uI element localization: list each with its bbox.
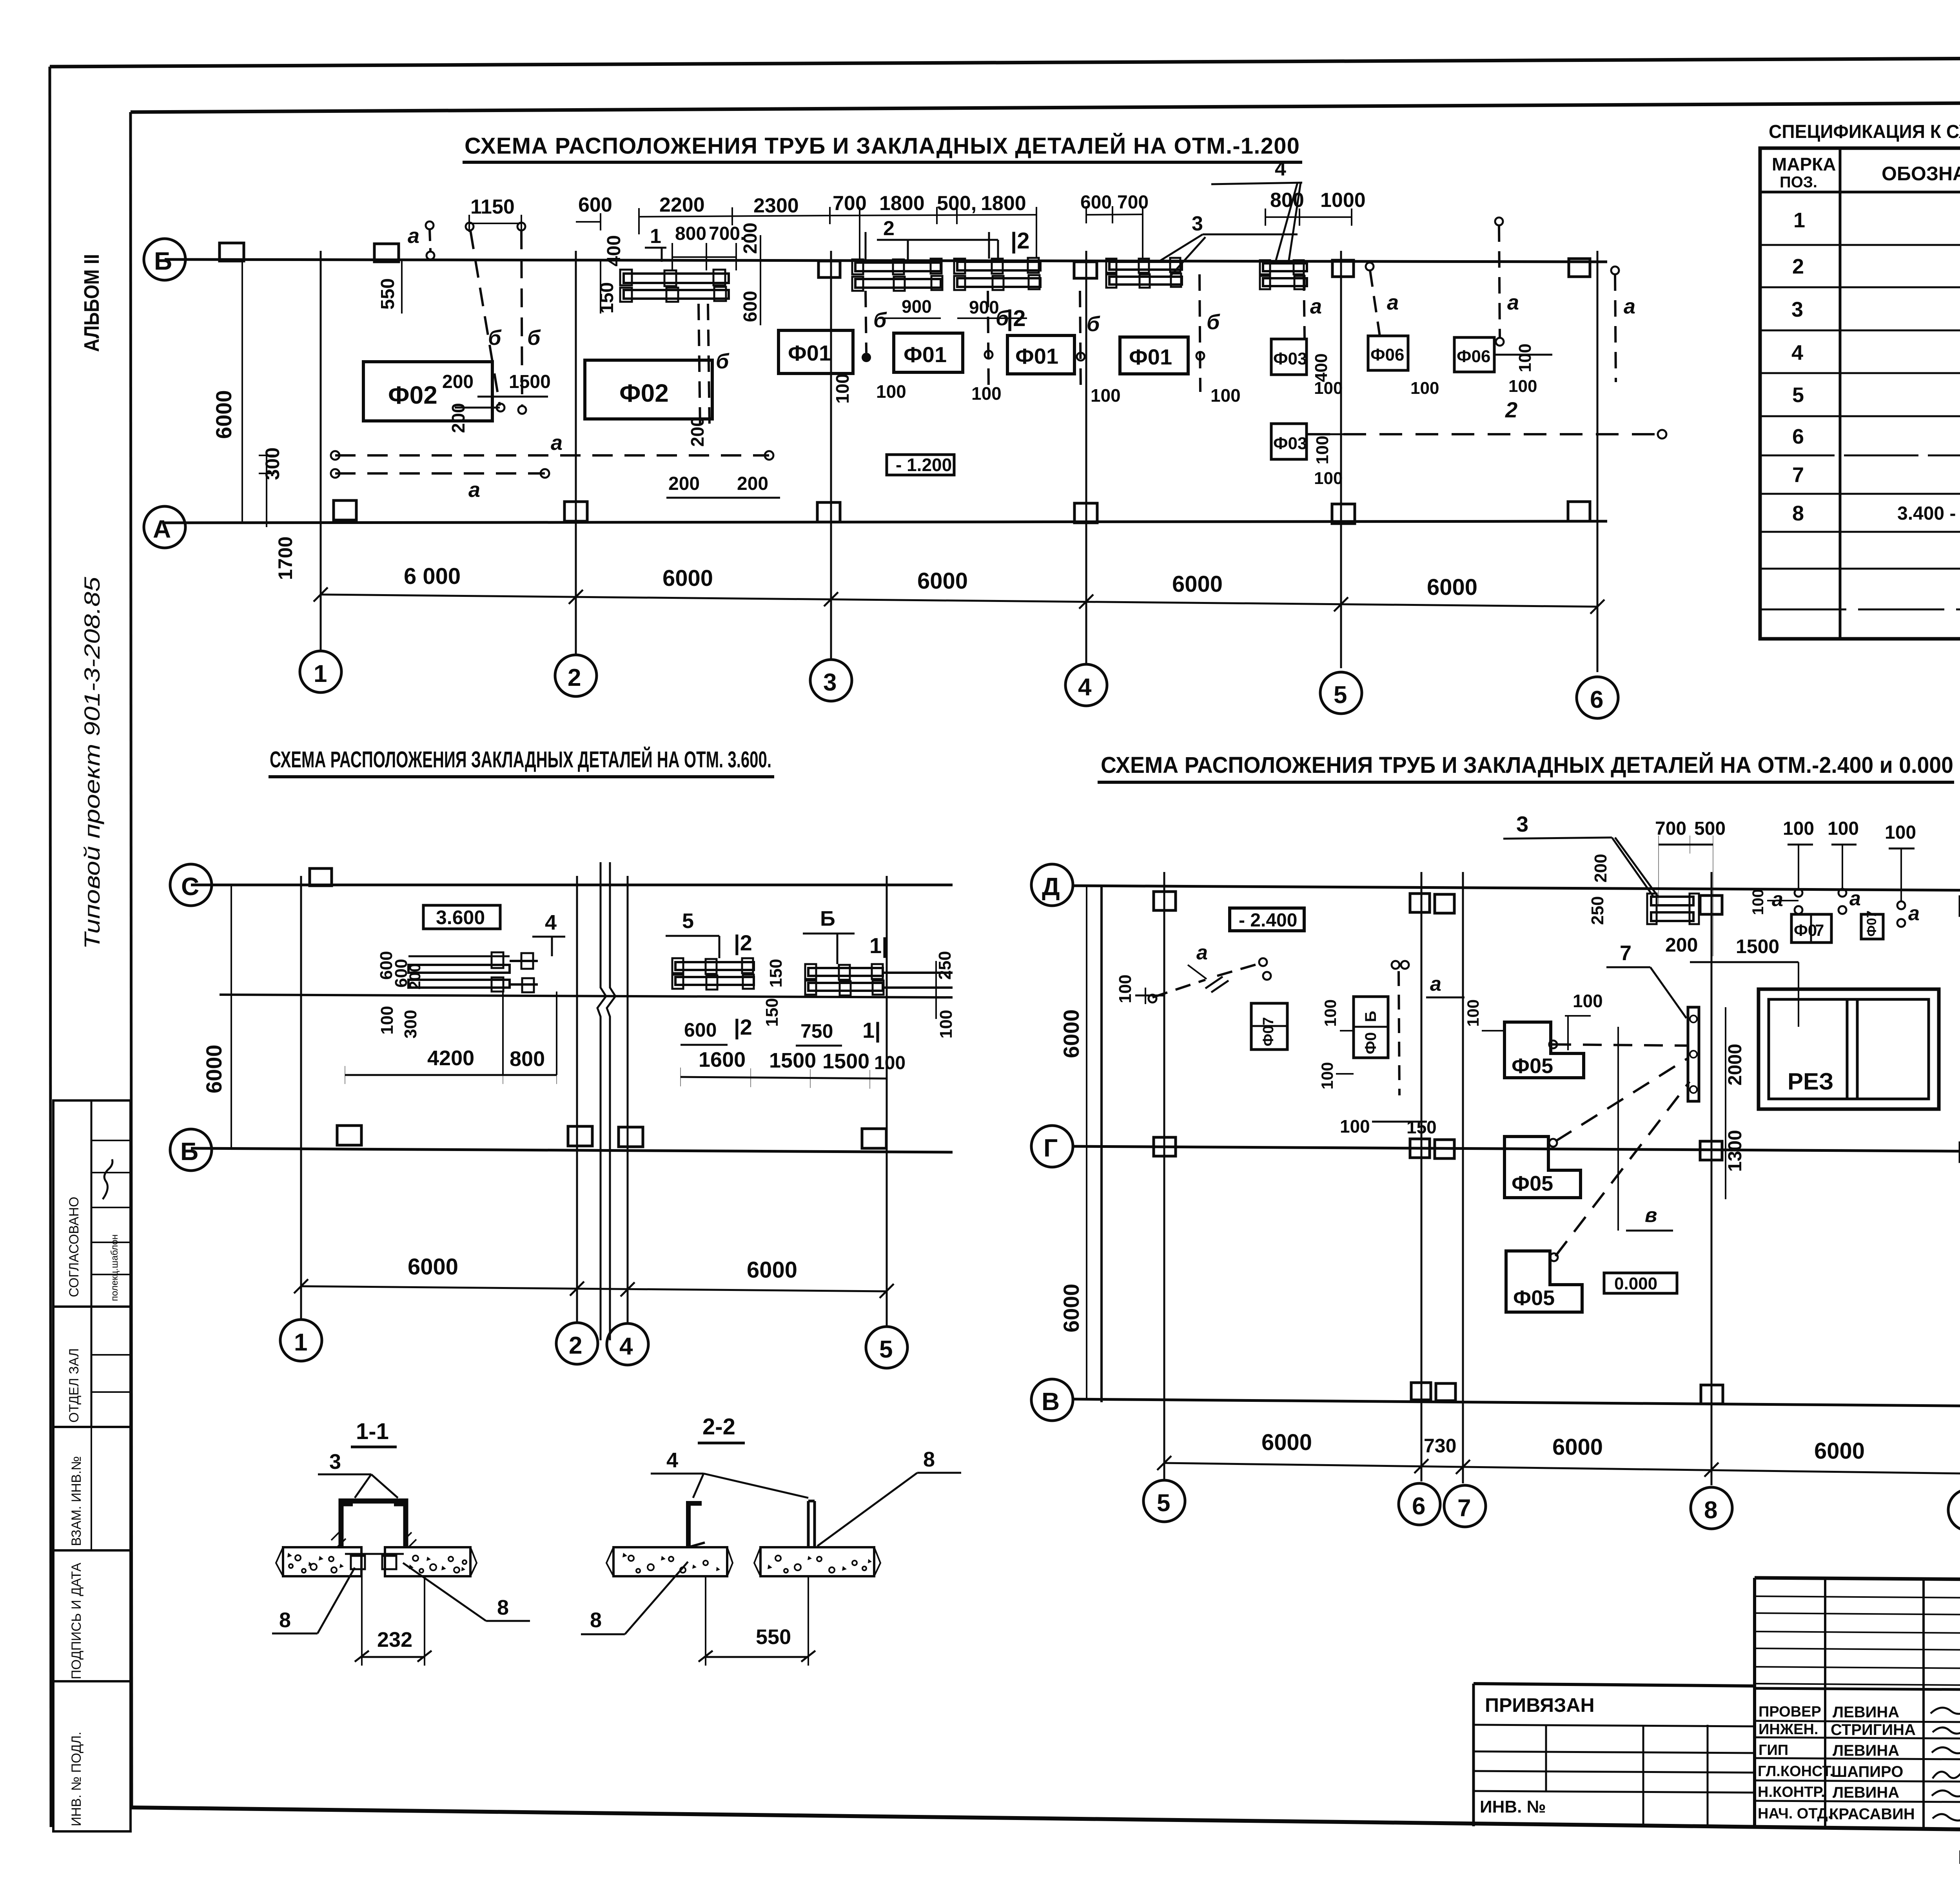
svg-text:Ф03: Ф03 [1273, 434, 1307, 453]
section 2-2 angle on left slab [688, 1503, 702, 1547]
svg-text:4: 4 [545, 911, 557, 934]
svg-text:150: 150 [766, 959, 786, 988]
titleblock names [1829, 1704, 1916, 1823]
svg-text:6: 6 [1412, 1493, 1425, 1520]
svg-text:700: 700 [1655, 818, 1686, 839]
plan3 Ф05 lower [1506, 1251, 1582, 1312]
equipment box Ф06 no.1 [1368, 336, 1408, 370]
vertical dim 6000 left [241, 259, 243, 523]
svg-text:7: 7 [1620, 941, 1632, 965]
svg-text:ИНЖЕН.: ИНЖЕН. [1759, 1721, 1818, 1738]
plan2 vertical dim 6000 [230, 885, 232, 1150]
plan3 grid line 8 [1711, 872, 1713, 1485]
svg-text:ВЗАМ. ИНВ.№: ВЗАМ. ИНВ.№ [69, 1456, 84, 1546]
svg-text:ПОЗ.: ПОЗ. [1780, 174, 1817, 191]
svg-text:ПРОВЕР: ПРОВЕР [1759, 1704, 1821, 1720]
equipment box Ф03 lower [1271, 424, 1307, 459]
svg-text:ЛЕВИНА: ЛЕВИНА [1833, 1704, 1899, 1721]
svg-text:ЛЕВИНА: ЛЕВИНА [1833, 1784, 1899, 1801]
plan3 а dashed segments left [1152, 980, 1205, 997]
svg-text:3: 3 [1791, 298, 1803, 321]
svg-text:200: 200 [1665, 934, 1698, 956]
svg-text:100: 100 [1783, 818, 1814, 839]
axis line Б [165, 259, 1607, 262]
svg-text:КОПИРОВАЛ: ХЮППЕНЕН: КОПИРОВАЛ: ХЮППЕНЕН [1958, 1846, 1960, 1868]
plan3 РЕЗ tank outer [1759, 989, 1939, 1109]
svg-text:8: 8 [923, 1448, 935, 1471]
outer border top [50, 56, 1960, 67]
svg-text:Ф06: Ф06 [1370, 345, 1405, 364]
svg-text:300: 300 [401, 1010, 420, 1039]
svg-text:100: 100 [936, 1010, 956, 1039]
column squares axis А [334, 500, 1590, 524]
svg-text:а: а [1387, 291, 1399, 314]
svg-text:а: а [1849, 887, 1861, 910]
channel cluster C1 at grids 2-3 [620, 270, 729, 302]
horizontal pipe a dashed row2 [335, 472, 545, 475]
titleblock row line above ПРОВЕР [1474, 1684, 1755, 1686]
section 1-1 slab left [283, 1547, 361, 1576]
plan2 grid circle 1 [280, 1320, 322, 1361]
svg-text:600: 600 [684, 1019, 717, 1041]
svg-text:1500: 1500 [509, 372, 551, 392]
svg-text:3.400 - 6/76: 3.400 - 6/76 [1897, 503, 1960, 524]
plan3 grid line 5 [1163, 872, 1165, 1479]
plan2 column squares Б axis [337, 1126, 886, 1148]
svg-text:150: 150 [597, 282, 617, 314]
привязан box columns [1545, 1725, 1547, 1791]
svg-text:5: 5 [1157, 1490, 1170, 1517]
svg-text:4200: 4200 [427, 1046, 474, 1070]
pipe б dashed 2 [521, 230, 522, 406]
svg-text:1: 1 [1793, 208, 1805, 232]
column squares axis Б [220, 243, 1590, 278]
grid line 1 [320, 251, 322, 651]
svg-text:а: а [1624, 295, 1635, 318]
svg-text:6000: 6000 [211, 390, 236, 439]
svg-text:3: 3 [823, 669, 837, 696]
svg-text:400: 400 [1312, 353, 1331, 382]
plan3 grid circle 6 [1399, 1483, 1440, 1525]
level mark -2.400 [1230, 908, 1304, 931]
svg-text:100: 100 [1091, 385, 1121, 406]
svg-text:ИНВ. №: ИНВ. № [1480, 1797, 1546, 1816]
svg-text:ПРИВЯЗАН: ПРИВЯЗАН [1485, 1694, 1595, 1716]
titleblock signature scribbles [1931, 1707, 1960, 1820]
svg-text:4: 4 [1791, 341, 1803, 364]
svg-text:100: 100 [377, 1006, 397, 1035]
svg-text:5: 5 [1792, 383, 1804, 407]
svg-text:1500: 1500 [769, 1049, 816, 1072]
svg-text:100: 100 [832, 373, 853, 404]
axis circle Б plan2 [170, 1129, 212, 1171]
svg-text:Б: Б [154, 247, 172, 275]
svg-text:АЛЬБОМ II: АЛЬБОМ II [80, 254, 103, 352]
svg-text:а: а [1310, 295, 1322, 318]
svg-text:2: 2 [569, 1332, 582, 1359]
pipe б dashed at Ф01-2 [988, 291, 989, 392]
svg-text:3: 3 [329, 1450, 341, 1474]
svg-text:500: 500 [1694, 818, 1726, 839]
plan2 grid circle 2 [556, 1323, 598, 1364]
svg-text:а: а [1196, 941, 1208, 964]
section 2-2 concrete speckle [622, 1553, 872, 1573]
section 2-2 plate on right slab [808, 1501, 815, 1547]
plan3 dashed diagonal to Ф05 lower [1555, 1082, 1690, 1256]
axis circle А [144, 506, 185, 548]
svg-text:- 2.400: - 2.400 [1239, 910, 1297, 931]
plan3 Ф07 box with 7 [1791, 914, 1831, 943]
svg-text:250: 250 [1588, 896, 1607, 925]
svg-text:6000: 6000 [917, 568, 968, 594]
section 1-1 concrete speckle left [287, 1553, 466, 1573]
titleblock verticals [1824, 1579, 1826, 1826]
pipe б dashed at Ф01-3 [1200, 274, 1200, 392]
svg-text:а: а [1430, 973, 1441, 995]
svg-text:7: 7 [1457, 1495, 1471, 1522]
margin stamp box Инв. № подл. [53, 1681, 131, 1831]
horizontal pipe a dashed row1 [335, 454, 769, 457]
channel cluster C4 [1106, 258, 1182, 288]
margin signature scribble [103, 1159, 113, 1199]
section 2-2 slab break marks [606, 1547, 880, 1576]
plan3 item 7 plate [1688, 1007, 1699, 1101]
svg-text:100: 100 [1313, 436, 1332, 464]
svg-text:100: 100 [1318, 1062, 1336, 1089]
svg-text:100: 100 [1321, 999, 1339, 1027]
svg-text:Ф02: Ф02 [388, 381, 437, 409]
svg-text:СХЕМА РАСПОЛОЖЕНИЯ ТРУБ И ЗА: СХЕМА РАСПОЛОЖЕНИЯ ТРУБ И ЗАКЛАДНЫХ ДЕТА… [465, 133, 1299, 159]
dim extension lines 300/1700 [266, 451, 267, 527]
section 1-1 slab right [385, 1547, 470, 1576]
equipment box Ф01 no.2 [1007, 335, 1074, 374]
svg-text:|2: |2 [1007, 306, 1025, 331]
привязан box outline [1472, 1684, 1475, 1826]
svg-text:СОГЛАСОВАНО: СОГЛАСОВАНО [67, 1197, 82, 1297]
svg-text:800: 800 [510, 1047, 545, 1071]
svg-text:СТРИГИНА: СТРИГИНА [1831, 1721, 1916, 1738]
svg-text:600: 600 [1080, 192, 1112, 213]
svg-text:1|: 1| [862, 1018, 881, 1043]
svg-text:100: 100 [876, 381, 906, 402]
svg-text:750: 750 [800, 1020, 833, 1042]
svg-text:7: 7 [1792, 463, 1804, 487]
svg-text:300: 300 [261, 448, 283, 480]
plan3 в leader [1617, 1027, 1619, 1231]
plan3 grid circle 8 [1691, 1487, 1732, 1529]
svg-text:А: А [153, 515, 171, 543]
svg-text:2: 2 [1792, 255, 1804, 278]
svg-text:а: а [468, 478, 480, 502]
inner frame top [131, 100, 1960, 112]
section 1-1 channel П-shape [341, 1501, 406, 1547]
equipment box Ф03 upper [1271, 339, 1307, 375]
grid line 6 [1597, 251, 1599, 672]
a pipe small stub at 1100 [430, 229, 430, 251]
svg-text:ИНВ. № ПОДЛ.: ИНВ. № ПОДЛ. [69, 1732, 84, 1826]
axis line Б plan2 [191, 1148, 953, 1152]
svg-text:3: 3 [1516, 812, 1528, 836]
grid line 5 [1340, 251, 1342, 668]
spec row lines [1760, 244, 1960, 246]
bottom dimension line 6000x5 [321, 595, 1597, 607]
plan3 bottom dim line [1164, 1463, 1960, 1474]
plan3 vertical dim 6000 upper [1086, 886, 1087, 1146]
margin stamp box Взам. инв. № [53, 1427, 131, 1550]
svg-text:в: в [1645, 1204, 1657, 1227]
svg-text:100: 100 [1573, 991, 1603, 1011]
axis line А [165, 521, 1607, 523]
svg-text:700: 700 [1117, 192, 1149, 213]
plan3 grid circle 5 [1143, 1480, 1185, 1522]
section 2-2 slab right [760, 1547, 874, 1576]
pipe a dashed at 3326 [1304, 274, 1305, 338]
svg-text:800: 800 [675, 223, 706, 244]
svg-text:Ф05: Ф05 [1512, 1172, 1553, 1195]
svg-text:ОБОЗНАЧЕНИЕ: ОБОЗНАЧЕНИЕ [1882, 163, 1960, 185]
grid circle 3 [810, 660, 852, 701]
svg-text:4: 4 [1275, 158, 1286, 180]
plan2 break line double [597, 862, 606, 1340]
svg-text:1600: 1600 [699, 1048, 746, 1071]
plan3 dashed pipe from Ф05 upper to plate [1552, 1044, 1688, 1046]
svg-text:Типовой проект 901-3-208.85: Типовой проект 901-3-208.85 [80, 576, 104, 949]
section 2-2 slab left [613, 1547, 727, 1576]
svg-text:- 1.200: - 1.200 [896, 455, 952, 475]
grid line 4 [1085, 251, 1087, 663]
plan3 Ф05 upper [1504, 1022, 1584, 1078]
svg-text:б: б [1087, 312, 1100, 336]
plan3 Б/Ф0 vertical box [1354, 997, 1388, 1058]
axis line В [1073, 1399, 1960, 1406]
inner frame bottom [132, 1807, 1960, 1836]
svg-text:а: а [551, 431, 563, 455]
titleblock roles rows lines [1755, 1721, 1960, 1802]
plan3 title underline [1098, 781, 1954, 784]
svg-text:В: В [1042, 1387, 1060, 1416]
plan3 grid circle 9 [1948, 1489, 1960, 1531]
svg-text:ШАПИРО: ШАПИРО [1831, 1763, 1903, 1780]
svg-text:Ф01: Ф01 [1129, 344, 1172, 369]
svg-text:2: 2 [568, 664, 581, 691]
channel cluster C2 [852, 259, 942, 291]
equipment box Ф02 no.2 [585, 360, 712, 419]
svg-text:100: 100 [1410, 379, 1439, 398]
svg-text:550: 550 [377, 278, 398, 310]
svg-text:а: а [1908, 902, 1920, 925]
svg-text:С: С [181, 872, 199, 901]
channel cluster C3 [954, 258, 1040, 290]
plan2 grid line 5 [886, 876, 888, 1327]
plan3 grid circle 7 [1444, 1485, 1486, 1527]
svg-text:ОТДЕЛ ЗАЛ: ОТДЕЛ ЗАЛ [67, 1348, 82, 1423]
svg-text:6000: 6000 [1059, 1009, 1083, 1058]
plan3 а marks top right [1795, 889, 1802, 897]
plan2 grid circle 5 [866, 1327, 907, 1368]
plan2 grid line 2 [576, 876, 578, 1323]
svg-text:6: 6 [1590, 686, 1603, 713]
svg-text:6000: 6000 [201, 1044, 226, 1093]
svg-text:1|: 1| [869, 933, 888, 958]
svg-text:8: 8 [497, 1596, 509, 1619]
grid circle 6 [1577, 677, 1618, 718]
svg-text:100: 100 [1116, 975, 1135, 1003]
svg-text:6 000: 6 000 [404, 564, 461, 589]
svg-text:СПЕЦИФИКАЦИЯ К СХЕМАМ РАСПОЛ: СПЕЦИФИКАЦИЯ К СХЕМАМ РАСПОЛОЖЕНИЯ ТРУБ … [1769, 121, 1960, 142]
axis circle Д [1031, 864, 1073, 906]
svg-text:|2: |2 [734, 930, 752, 955]
svg-text:2000: 2000 [1725, 1044, 1746, 1086]
привязан box rows [1474, 1725, 1755, 1726]
svg-text:550: 550 [756, 1625, 791, 1649]
spec table outer box [1760, 148, 1960, 639]
svg-text:Ф07: Ф07 [1864, 910, 1879, 937]
plan2 bottom dim line [301, 1286, 887, 1291]
svg-text:а: а [408, 224, 419, 248]
equipment box Ф01 no.4 [894, 333, 963, 372]
pipe б dashed at grid3 [866, 291, 866, 353]
svg-text:900: 900 [969, 297, 999, 317]
plan3 РЕЗ tank inner [1769, 999, 1929, 1099]
equipment box Ф01 no.3 [1120, 337, 1188, 374]
grid line 2 [575, 251, 577, 655]
spec table header row line [1760, 191, 1960, 194]
svg-text:400: 400 [604, 235, 624, 266]
axis line Д [1073, 886, 1960, 890]
svg-text:Б: Б [1362, 1011, 1379, 1022]
outer border left [50, 67, 51, 1827]
svg-text:Ф0: Ф0 [1794, 921, 1817, 939]
svg-text:100: 100 [971, 383, 1002, 404]
axis line Г [1073, 1146, 1960, 1151]
pipe б dashed at grid4 [1080, 291, 1081, 392]
svg-text:100: 100 [1515, 344, 1535, 372]
plan3 channel item at Д [1647, 894, 1699, 924]
svg-text:Г: Г [1044, 1134, 1058, 1162]
equipment box Ф01 no.1 [779, 330, 853, 373]
svg-text:0.000: 0.000 [1614, 1274, 1657, 1293]
svg-text:8: 8 [279, 1608, 291, 1632]
svg-text:100: 100 [1464, 999, 1482, 1027]
channel cluster C5 [1260, 260, 1307, 289]
svg-text:6000: 6000 [1427, 575, 1477, 600]
plan3 grid line 7 [1462, 872, 1464, 1483]
svg-text:|2: |2 [1011, 228, 1029, 254]
svg-text:СХЕМА РАСПОЛОЖЕНИЯ ТРУБ И З: СХЕМА РАСПОЛОЖЕНИЯ ТРУБ И ЗАКЛАДНЫХ ДЕТА… [1101, 752, 1953, 778]
svg-text:600: 600 [578, 194, 612, 216]
svg-text:100: 100 [1210, 385, 1241, 406]
equipment box Ф06 no.2 [1454, 337, 1494, 372]
plan1 title underline [463, 161, 1302, 164]
svg-text:6000: 6000 [408, 1254, 458, 1280]
section 1-1 slab joint plates [345, 1553, 404, 1555]
margin stamp box Подпись и дата [53, 1550, 131, 1681]
svg-text:8: 8 [590, 1608, 602, 1632]
plan2 cluster 1 [408, 952, 538, 992]
plan2 cluster 3 [805, 964, 953, 995]
level mark 3.600 [423, 905, 500, 929]
svg-text:Ф07: Ф07 [1260, 1017, 1277, 1046]
svg-text:6000: 6000 [1552, 1434, 1603, 1460]
svg-text:Ф02: Ф02 [619, 379, 669, 407]
svg-text:6000: 6000 [662, 566, 713, 591]
section 1-1 weld ticks [331, 1532, 416, 1547]
axis line С [191, 884, 953, 886]
svg-text:2: 2 [1505, 397, 1517, 422]
plan3 column squares В [1411, 1383, 1723, 1404]
plan3 column squares Д [1154, 892, 1960, 915]
svg-text:100: 100 [1828, 818, 1859, 839]
svg-text:Ф05: Ф05 [1512, 1054, 1553, 1078]
svg-text:6000: 6000 [1059, 1283, 1083, 1332]
svg-text:1800: 1800 [981, 192, 1026, 215]
grid circle 5 [1320, 672, 1362, 714]
svg-text:а: а [1772, 888, 1783, 911]
svg-text:1150: 1150 [470, 196, 515, 218]
svg-text:МАРКА: МАРКА [1772, 154, 1836, 174]
pipe б dashed 1 slanted [470, 230, 500, 406]
svg-text:НАЧ. ОТД.: НАЧ. ОТД. [1758, 1806, 1832, 1822]
svg-text:б: б [716, 350, 730, 373]
pipe б dashed at Ф02-2 [699, 304, 700, 427]
inner frame left [131, 112, 132, 1807]
margin stamp box Согласовано [53, 1100, 131, 1307]
plan3 dashed diagonal to Ф05 middle [1555, 1058, 1688, 1141]
svg-text:150: 150 [762, 998, 782, 1027]
svg-text:600: 600 [740, 291, 761, 322]
svg-text:полекц.шаблон: полекц.шаблон [109, 1235, 120, 1301]
svg-text:5: 5 [682, 909, 694, 933]
spec table column lines [1839, 148, 1842, 639]
svg-text:Ф01: Ф01 [904, 342, 947, 367]
axis circle С [170, 864, 212, 906]
plan3 а dashed vertical pair at box [1399, 971, 1399, 1095]
svg-text:6000: 6000 [1261, 1430, 1312, 1455]
svg-text:СХЕМА РАСПОЛОЖЕНИЯ ЗАКЛАДНЫХ: СХЕМА РАСПОЛОЖЕНИЯ ЗАКЛАДНЫХ ДЕТАЛЕЙ НА … [270, 747, 771, 772]
svg-text:1800: 1800 [879, 192, 925, 215]
plan2 grid line 4 [627, 876, 629, 1324]
axis circle В [1031, 1379, 1073, 1421]
svg-text:5: 5 [1334, 682, 1347, 709]
svg-text:250: 250 [935, 951, 955, 980]
grid line 3 [830, 251, 832, 659]
svg-text:б: б [527, 326, 541, 350]
svg-text:РЕЗ: РЕЗ [1788, 1068, 1834, 1095]
plan2 column squares C axis [310, 868, 332, 886]
svg-text:100: 100 [1749, 889, 1767, 915]
plan2 grid line 1 [300, 876, 302, 1320]
svg-text:3.600: 3.600 [436, 906, 485, 928]
svg-text:Б: Б [180, 1137, 198, 1166]
svg-text:Ф01: Ф01 [788, 341, 831, 365]
svg-text:Б: Б [820, 907, 835, 930]
svg-text:2: 2 [883, 217, 895, 240]
svg-text:1: 1 [650, 225, 661, 248]
svg-text:100: 100 [1314, 469, 1343, 488]
titleblock thin rows upper-left [1755, 1596, 1960, 1686]
vertical stub lines under clusters [865, 232, 867, 262]
pipe a dashed slanted [1370, 270, 1380, 336]
plan3 column squares Г [1154, 1137, 1960, 1162]
svg-text:8: 8 [1792, 502, 1804, 525]
svg-text:6000: 6000 [747, 1257, 797, 1283]
plan3 grid line 6 [1421, 872, 1423, 1481]
svg-text:2200: 2200 [659, 194, 705, 216]
spec position numbers [1791, 208, 1805, 525]
svg-text:200: 200 [407, 963, 424, 990]
equipment box Ф02 no.1 [363, 362, 492, 421]
svg-text:200: 200 [442, 372, 474, 392]
